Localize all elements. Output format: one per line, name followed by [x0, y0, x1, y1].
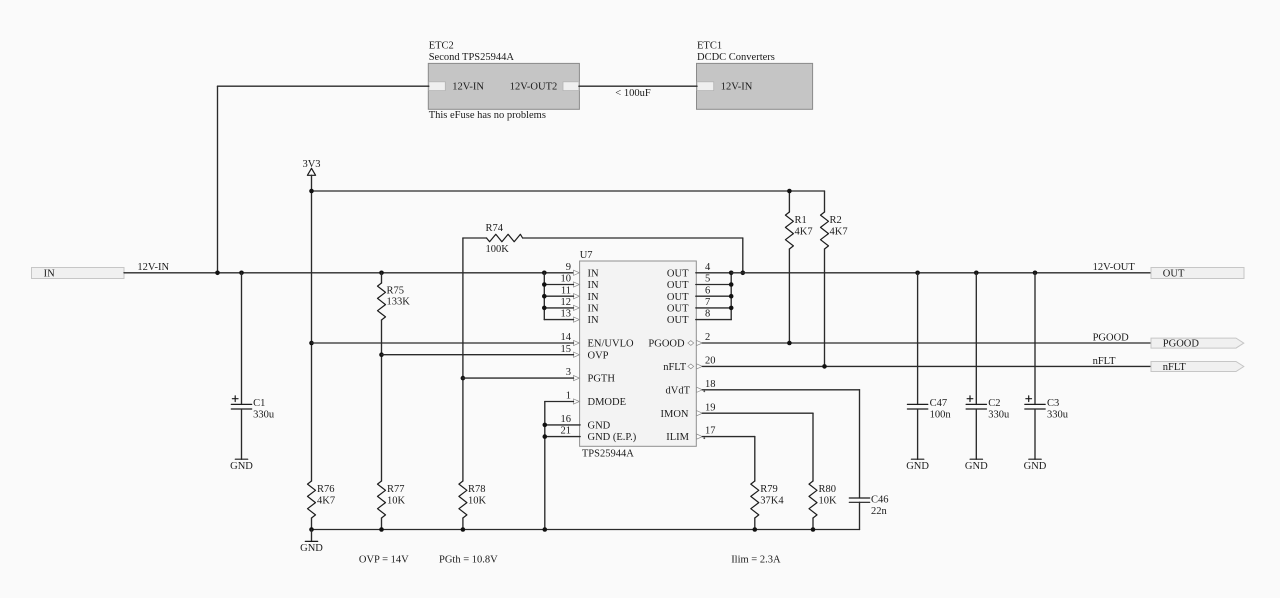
wire GND pin 21: [545, 436, 580, 438]
svg-text:330u: 330u: [1047, 410, 1069, 421]
net label PGOOD: [1093, 332, 1130, 343]
svg-text:IN: IN: [588, 268, 599, 279]
capacitor C2 330u: [966, 273, 1010, 459]
svg-text:OUT: OUT: [1163, 268, 1185, 279]
svg-text:4: 4: [705, 262, 711, 273]
ground below C1: [230, 459, 253, 472]
svg-text:OUT: OUT: [667, 315, 689, 326]
svg-text:10K: 10K: [819, 495, 838, 506]
wire main 12V-IN line: [124, 272, 574, 274]
svg-text:22n: 22n: [871, 506, 888, 517]
svg-text:< 100uF: < 100uF: [615, 88, 651, 99]
svg-text:7: 7: [705, 297, 710, 308]
svg-text:12: 12: [561, 297, 572, 308]
net label 12V-OUT: [1093, 262, 1136, 273]
svg-text:10: 10: [561, 274, 572, 285]
svg-text:IN: IN: [588, 304, 599, 315]
svg-text:8: 8: [705, 309, 710, 320]
svg-text:330u: 330u: [988, 410, 1010, 421]
svg-text:37K4: 37K4: [760, 495, 784, 506]
svg-text:OUT: OUT: [667, 292, 689, 303]
svg-text:12V-OUT2: 12V-OUT2: [510, 81, 557, 92]
wire dVdT to C46: [702, 390, 859, 498]
text PGth note: [439, 555, 498, 566]
ETC1 pin 12V-IN: [697, 81, 753, 92]
node PGTH junction: [461, 271, 745, 381]
resistor R76 4K7: [308, 481, 336, 530]
svg-text:GND (E.P.): GND (E.P.): [588, 432, 637, 443]
node R1 top junction: [787, 189, 792, 194]
U7 left pin names: [588, 268, 637, 443]
svg-text:nFLT: nFLT: [1093, 356, 1117, 367]
svg-text:nFLT: nFLT: [663, 362, 687, 373]
svg-text:6: 6: [705, 285, 710, 296]
wire 3V3 vertical rail: [311, 175, 313, 481]
svg-text:PGth = 10.8V: PGth = 10.8V: [439, 555, 498, 566]
wire 12V-OUT main: [731, 272, 1151, 274]
U7 pin chevrons left: [574, 270, 580, 404]
svg-text:R79: R79: [760, 484, 778, 495]
svg-text:C3: C3: [1047, 398, 1059, 409]
ground below C2: [965, 459, 988, 472]
svg-text:OUT: OUT: [667, 268, 689, 279]
node nFLT/R2 junction: [822, 364, 827, 369]
wire IN pin bus: [544, 273, 573, 320]
svg-text:ETC1: ETC1: [697, 41, 722, 52]
sheet block ETC1 DCDC Converters: [697, 41, 813, 110]
svg-text:19: 19: [705, 402, 716, 413]
text OVP note: [359, 555, 409, 566]
resistor R77 10K: [378, 481, 406, 530]
wire nFLT: [702, 365, 1151, 367]
svg-text:C1: C1: [253, 398, 265, 409]
svg-text:ETC2: ETC2: [429, 41, 454, 52]
node IN bus junctions: [542, 282, 547, 310]
svg-text:TPS25944A: TPS25944A: [582, 448, 634, 459]
node GND pins junctions: [543, 423, 548, 439]
svg-text:IN: IN: [588, 315, 599, 326]
U7 right pin numbers: [705, 262, 716, 437]
wire GND pin 16: [545, 424, 580, 426]
svg-text:12V-OUT: 12V-OUT: [1093, 262, 1136, 273]
net label 12V-IN: [137, 262, 169, 273]
power symbol 3V3: [302, 159, 320, 175]
node PGOOD/R1 junction: [787, 341, 792, 346]
node main line junctions: [215, 271, 546, 276]
svg-text:IN: IN: [588, 280, 599, 291]
resistor R75 133K: [378, 273, 411, 481]
svg-text:2: 2: [705, 332, 710, 343]
wire DMODE to ground rail: [545, 402, 574, 530]
wire PGTH vertical: [462, 238, 464, 481]
svg-text:OVP = 14V: OVP = 14V: [359, 555, 409, 566]
svg-text:dVdT: dVdT: [666, 385, 691, 396]
wire IMON to R80: [702, 413, 813, 481]
svg-text:GND: GND: [906, 461, 929, 472]
svg-text:IMON: IMON: [661, 409, 689, 420]
U7 left pin numbers: [561, 262, 572, 437]
connector nFLT output flag: [1151, 362, 1244, 374]
svg-text:R80: R80: [819, 484, 837, 495]
U7 pin chevrons right: [697, 340, 703, 439]
wire OVP: [382, 354, 574, 356]
svg-text:Ilim = 2.3A: Ilim = 2.3A: [731, 555, 781, 566]
svg-text:EN/UVLO: EN/UVLO: [588, 339, 634, 350]
node 12V-OUT junctions: [915, 271, 1037, 276]
svg-text:100K: 100K: [486, 244, 510, 255]
svg-text:133K: 133K: [387, 297, 411, 308]
svg-text:100n: 100n: [930, 410, 952, 421]
wire 3V3 horizontal to R1 R2: [312, 190, 825, 192]
resistor R2 4K7: [821, 191, 848, 366]
node 3V3/EN junction: [309, 189, 314, 346]
resistor R74 100K: [463, 223, 743, 273]
ground on rail: [300, 530, 323, 555]
svg-text:DCDC Converters: DCDC Converters: [697, 52, 775, 63]
svg-text:DMODE: DMODE: [588, 397, 627, 408]
svg-text:12V-IN: 12V-IN: [452, 81, 484, 92]
net label nFLT: [1093, 356, 1117, 367]
wire PGOOD: [702, 342, 1151, 344]
svg-text:R75: R75: [387, 285, 405, 296]
svg-text:PGTH: PGTH: [588, 374, 616, 385]
svg-text:Second TPS25944A: Second TPS25944A: [429, 52, 515, 63]
svg-text:10K: 10K: [468, 495, 487, 506]
svg-text:4K7: 4K7: [830, 226, 848, 237]
U7 pin dots pins 18,17: [703, 391, 705, 440]
svg-text:16: 16: [561, 414, 572, 425]
svg-text:R76: R76: [317, 484, 335, 495]
resistor R1 4K7: [785, 191, 812, 343]
svg-text:IN: IN: [44, 268, 55, 279]
resistor R78 10K: [459, 481, 487, 530]
svg-text:PGOOD: PGOOD: [1093, 332, 1130, 343]
wire ILIM to R79: [702, 437, 754, 481]
connector OUT: [1151, 268, 1244, 280]
node OUT bus junctions: [729, 271, 734, 311]
svg-text:5: 5: [705, 274, 710, 285]
svg-text:1: 1: [566, 391, 571, 402]
svg-text:R77: R77: [387, 484, 405, 495]
wire OUT pin bus: [696, 273, 731, 320]
ETC2 pin 12V-OUT2: [510, 81, 579, 92]
svg-text:4K7: 4K7: [317, 495, 335, 506]
connector PGOOD output flag: [1151, 338, 1244, 350]
svg-text:OUT: OUT: [667, 280, 689, 291]
svg-text:C47: C47: [930, 398, 948, 409]
svg-text:R74: R74: [486, 223, 504, 234]
svg-text:9: 9: [566, 262, 571, 273]
capacitor C47 100n: [907, 273, 951, 459]
svg-text:PGOOD: PGOOD: [1163, 339, 1200, 350]
sheet block ETC2 Second TPS25944A: [428, 41, 579, 121]
svg-text:R78: R78: [468, 484, 486, 495]
svg-text:330u: 330u: [253, 410, 275, 421]
ground below C47: [906, 459, 929, 472]
wire PGTH: [463, 377, 574, 379]
wire 12V-IN up to ETC2: [218, 86, 429, 273]
svg-text:C46: C46: [871, 494, 889, 505]
svg-text:3: 3: [566, 367, 571, 378]
ground below C3: [1024, 459, 1047, 472]
svg-text:21: 21: [561, 426, 572, 437]
svg-text:GND: GND: [230, 461, 253, 472]
wire ETC2 to ETC1 with label < 100uF: [579, 86, 697, 99]
svg-text:10K: 10K: [387, 495, 406, 506]
svg-text:PGOOD: PGOOD: [648, 339, 685, 350]
capacitor C3 330u: [1025, 273, 1069, 459]
svg-text:GND: GND: [300, 543, 323, 554]
U7 right pin names: [648, 268, 690, 443]
op-amp U7 TPS25944A body: [580, 250, 697, 460]
svg-text:13: 13: [561, 309, 572, 320]
svg-text:12V-IN: 12V-IN: [721, 81, 753, 92]
U7 open-drain diamonds pins 2,20: [688, 341, 694, 369]
wire ground rail: [312, 529, 860, 531]
svg-text:IN: IN: [588, 292, 599, 303]
node OVP junction: [379, 352, 384, 357]
svg-text:GND: GND: [588, 421, 611, 432]
svg-text:OUT: OUT: [667, 304, 689, 315]
svg-text:4K7: 4K7: [795, 226, 813, 237]
wire EN/UVLO: [312, 342, 574, 344]
capacitor C1 330u: [231, 273, 275, 459]
svg-text:GND: GND: [965, 461, 988, 472]
svg-text:18: 18: [705, 379, 716, 390]
svg-text:15: 15: [561, 344, 572, 355]
text Ilim note: [731, 555, 781, 566]
svg-text:OVP: OVP: [588, 350, 609, 361]
svg-text:17: 17: [705, 426, 716, 437]
ETC2 pin 12V-IN: [429, 81, 485, 92]
svg-text:R1: R1: [795, 215, 807, 226]
svg-text:U7: U7: [580, 250, 593, 261]
svg-text:R2: R2: [830, 215, 842, 226]
svg-text:C2: C2: [988, 398, 1000, 409]
svg-text:GND: GND: [1024, 461, 1047, 472]
connector IN: [32, 268, 125, 280]
svg-text:ILIM: ILIM: [666, 432, 689, 443]
resistor R80 10K: [809, 481, 837, 530]
svg-text:14: 14: [561, 332, 572, 343]
node ground rail junctions: [309, 527, 815, 532]
svg-text:20: 20: [705, 356, 716, 367]
svg-text:This eFuse has no problems: This eFuse has no problems: [429, 110, 546, 121]
resistor R79 37K4: [751, 481, 785, 530]
svg-text:11: 11: [561, 285, 571, 296]
capacitor C46 22n: [849, 494, 888, 529]
svg-text:12V-IN: 12V-IN: [137, 262, 169, 273]
svg-text:nFLT: nFLT: [1163, 362, 1187, 373]
